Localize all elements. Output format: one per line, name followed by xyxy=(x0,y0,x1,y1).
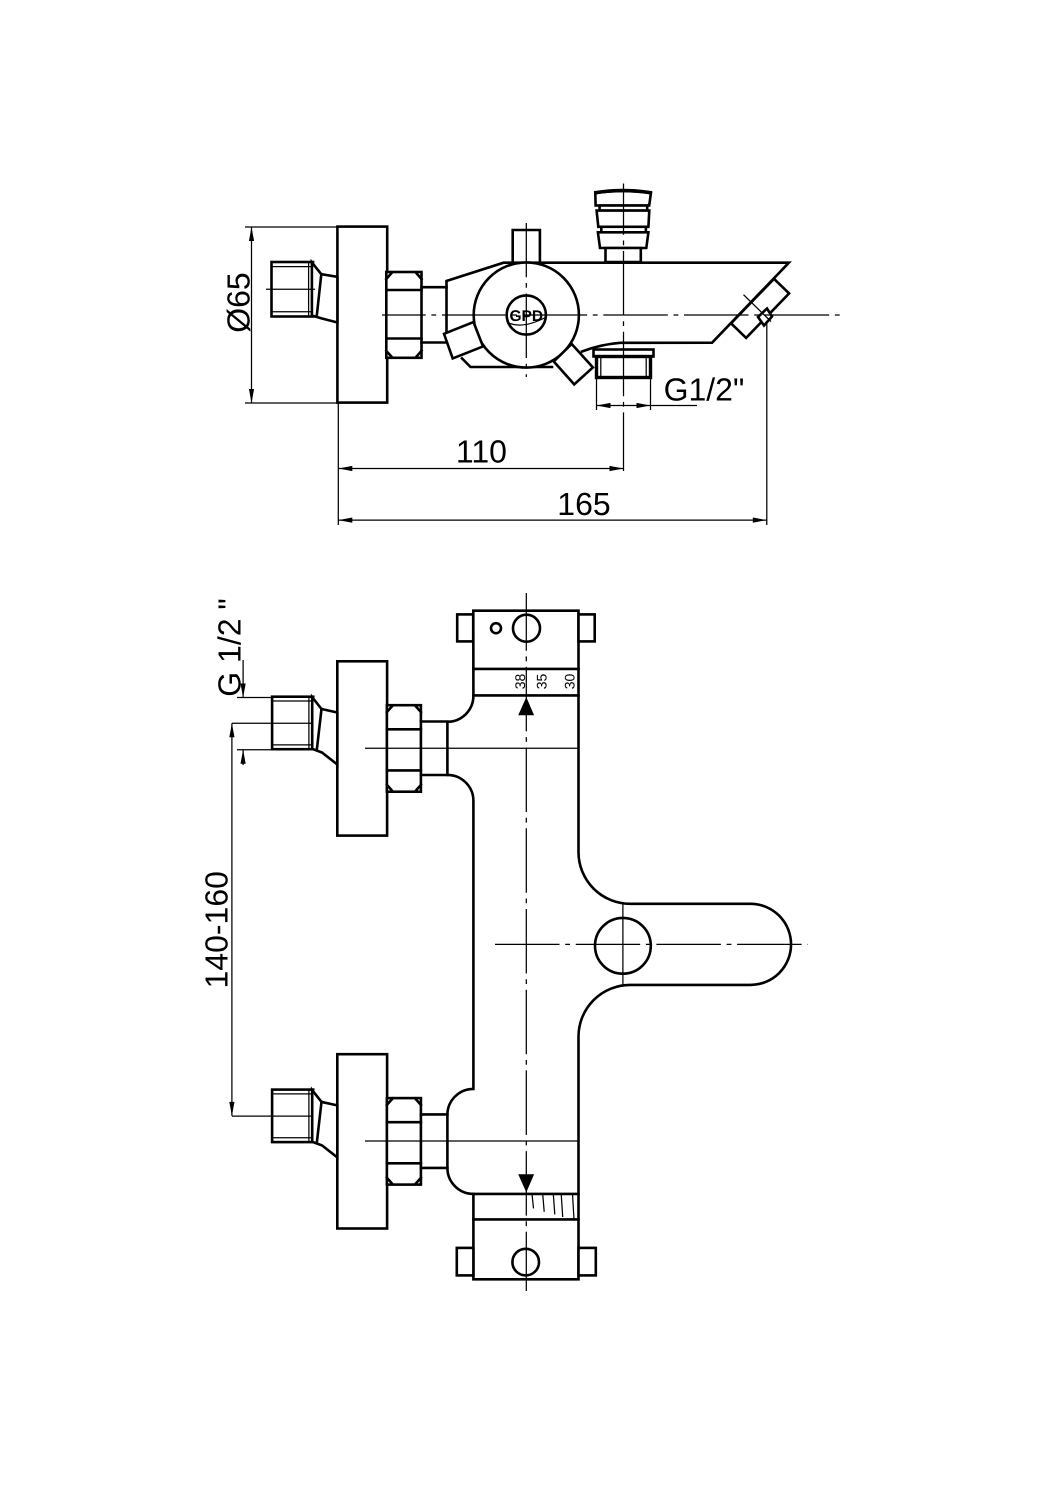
lower wall flange (front view) xyxy=(337,1054,387,1228)
dimension 165 xyxy=(338,321,767,525)
dimension 140-160 (front view) xyxy=(198,723,234,1116)
centerline lower fitting axis (front view) xyxy=(232,1115,313,1117)
temperature scale band lines (front view top) xyxy=(473,669,578,696)
upper hex nut (front view) xyxy=(387,705,421,792)
lower scale hatch ticks xyxy=(532,1194,574,1220)
lower supply fitting (front view) xyxy=(272,1090,313,1143)
centerline main vertical (front view) xyxy=(525,593,527,1291)
upper wall flange (front view) xyxy=(337,661,387,835)
svg-text:140-160: 140-160 xyxy=(198,871,234,988)
bottom head ears (front view) xyxy=(457,1248,596,1276)
centerline upper fitting axis (front view) xyxy=(232,722,313,724)
centerline lower mount axis (front view) xyxy=(365,1140,579,1142)
dimension G1/2 outlet (top view) xyxy=(597,371,745,410)
head small circle (front view top) xyxy=(491,623,501,633)
wall flange (top view) xyxy=(337,227,387,403)
lower hex nut (front view) xyxy=(387,1098,421,1185)
spout hole circle (front view) xyxy=(595,918,651,974)
svg-text:35: 35 xyxy=(533,674,549,690)
centerline main axis (top view) xyxy=(382,314,843,316)
lower eccentric cone (front view) xyxy=(312,1090,337,1157)
centerline spout extension axis (front view) xyxy=(495,943,808,945)
centerline diverter / outlet axis (top view) xyxy=(623,184,625,472)
spout tip check valve fitting (top view) xyxy=(731,279,789,338)
centerline knob vertical (top view) xyxy=(525,223,527,377)
upper eccentric cone (front view) xyxy=(312,697,337,764)
svg-text:Ø65: Ø65 xyxy=(220,272,256,332)
svg-text:110: 110 xyxy=(456,433,507,469)
centerline upper mount axis (front view) xyxy=(365,747,579,749)
temperature scale numbers 38 35 30 xyxy=(512,674,578,690)
flow lever tab right (top view) xyxy=(554,344,593,384)
lower connector cylinder (front view) xyxy=(421,1114,448,1168)
scale pointer arrow down (front view) xyxy=(518,1174,534,1192)
shower outlet flange (top view) xyxy=(594,350,654,357)
hex nut (top view) xyxy=(386,272,421,358)
dimension Ø65 xyxy=(220,227,337,403)
temperature lever tab left (top view) xyxy=(444,322,483,358)
lower scale band lines (front view bottom) xyxy=(473,1194,578,1220)
bottom head circle (front view) xyxy=(512,1249,539,1276)
shower outlet thread G1/2 (top view) xyxy=(597,357,651,378)
control knob circle (top view) xyxy=(474,262,579,367)
faucet body outline (front view) xyxy=(447,611,791,1280)
eccentric cone (top view) xyxy=(312,263,338,323)
centerline supply fitting axis (top view) xyxy=(266,288,315,290)
spout hole vertical line (front view) xyxy=(622,904,624,985)
svg-text:38: 38 xyxy=(512,674,528,690)
body and spout outline (top view) xyxy=(447,263,789,367)
svg-text:165: 165 xyxy=(557,486,610,522)
GPD logo xyxy=(507,295,546,334)
cartridge stub (top view) xyxy=(513,230,540,263)
scale pointer arrow up (front view) xyxy=(518,697,534,715)
svg-text:30: 30 xyxy=(562,674,578,690)
dimension 110 xyxy=(338,403,623,525)
diverter knob xyxy=(595,191,651,263)
upper supply fitting (front view) xyxy=(272,697,313,750)
supply fitting (top view) xyxy=(272,262,314,317)
head big circle (front view top) xyxy=(513,615,540,642)
upper connector cylinder (front view) xyxy=(421,722,448,776)
head ears (front view top) xyxy=(457,614,595,641)
connector cylinder (top view) xyxy=(422,287,447,342)
dimension G 1/2 (front view) xyxy=(212,598,272,765)
svg-text:G1/2": G1/2" xyxy=(664,371,745,407)
svg-text:G 1/2 ": G 1/2 " xyxy=(212,598,248,697)
